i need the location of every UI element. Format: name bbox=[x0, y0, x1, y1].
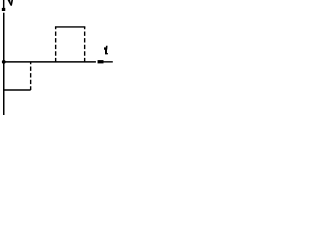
negative pulse right dashed edge bbox=[30, 62, 32, 90]
t axis (horizontal line) bbox=[5, 61, 96, 63]
positive pulse top line bbox=[55, 26, 85, 28]
background bbox=[0, 0, 113, 115]
t axis arrowhead base bbox=[98, 60, 104, 63]
v axis label bbox=[8, 0, 14, 6]
positive pulse left dashed edge bbox=[55, 27, 57, 62]
v axis (vertical line) bbox=[3, 13, 5, 115]
positive pulse right dashed edge bbox=[84, 27, 86, 62]
v axis arrowhead tip column bbox=[3, 0, 4, 8]
negative pulse bottom line bbox=[3, 89, 31, 91]
v axis arrowhead base bbox=[2, 8, 5, 11]
t axis arrowhead tip column bbox=[104, 61, 113, 62]
t axis label bbox=[104, 46, 108, 55]
origin dot bbox=[2, 60, 6, 64]
